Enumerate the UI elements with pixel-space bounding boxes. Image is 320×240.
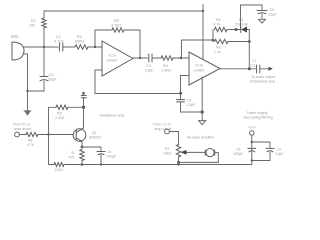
svg-text:1N4148: 1N4148 — [235, 23, 248, 27]
op-amp U2 IC1b — [189, 52, 220, 85]
resistor R3 — [112, 28, 124, 32]
svg-text:LM387: LM387 — [194, 69, 205, 73]
wire rail to R1 — [43, 11, 45, 18]
svg-text:+9 V: +9 V — [248, 126, 256, 130]
svg-text:Q1: Q1 — [92, 131, 97, 135]
wire C2 to bottom junction — [28, 81, 45, 91]
wire bottom rail — [64, 164, 252, 166]
wire R2 to IC1a input — [88, 46, 102, 48]
output arrow terminal — [269, 67, 273, 71]
svg-text:10µF: 10µF — [276, 152, 284, 156]
resistor R8 — [26, 132, 38, 136]
capacitor C8 — [248, 148, 256, 151]
wire noninverting input down — [95, 70, 102, 93]
microphone MIC — [11, 34, 24, 60]
svg-text:22µF: 22µF — [268, 13, 277, 17]
wire C4 to ground node — [181, 102, 203, 112]
svg-text:of feedback amp: of feedback amp — [250, 80, 276, 84]
svg-text:R7: R7 — [165, 147, 170, 151]
wire C7 to output arrow — [260, 68, 269, 70]
wire earphone return — [179, 153, 219, 163]
terminal +9V — [250, 131, 254, 135]
resistor RC — [56, 105, 68, 109]
earphone — [205, 149, 214, 157]
resistor R6 — [215, 39, 229, 43]
node base junction — [47, 133, 49, 135]
wire mic return down — [23, 54, 28, 91]
ground arrow left — [24, 91, 31, 116]
node pot/rail — [177, 163, 179, 165]
svg-text:1.4k: 1.4k — [214, 50, 221, 54]
wire C5 to ground — [261, 14, 263, 19]
svg-text:2.2kΩ: 2.2kΩ — [55, 116, 65, 120]
node bias line / C4 — [179, 92, 182, 95]
svg-text:Re-enter amplifier: Re-enter amplifier — [187, 135, 215, 139]
svg-text:To audio output: To audio output — [251, 75, 275, 79]
wire D1 to output vertical — [247, 29, 249, 31]
terminal from C2 of amp — [165, 129, 170, 134]
capacitor C6 — [97, 152, 105, 155]
node return/pot bottom — [177, 161, 180, 164]
wire bias line — [95, 93, 181, 95]
node emitter junction — [81, 146, 84, 149]
svg-text:R1: R1 — [31, 19, 36, 23]
svg-text:IC1b: IC1b — [196, 64, 204, 68]
terminal input from amp — [15, 132, 20, 137]
wire bottom rail left — [49, 164, 55, 166]
node R6/output vertical — [248, 40, 251, 43]
wire IC1b noninverting input — [181, 76, 190, 94]
svg-text:4.7k: 4.7k — [27, 143, 34, 147]
svg-text:C5: C5 — [270, 8, 275, 12]
svg-text:1.5µF: 1.5µF — [186, 103, 196, 107]
wire collector up — [82, 107, 84, 128]
wire diode node to C5 — [241, 5, 263, 29]
wire node A down to C2 — [43, 47, 45, 77]
capacitor C3 — [149, 54, 152, 62]
wire branch to C9 — [252, 142, 270, 148]
svg-text:1.4kΩ: 1.4kΩ — [161, 69, 171, 73]
capacitor collector coupling — [81, 96, 86, 98]
wire RC row — [49, 106, 57, 108]
transistor Q1 — [73, 128, 86, 142]
svg-text:From C2 of: From C2 of — [153, 123, 171, 127]
wire terminal to R8 — [19, 134, 26, 136]
svg-text:10kΩ: 10kΩ — [163, 152, 172, 156]
node A mic/R1 junction — [43, 46, 45, 48]
wire R6 to output vertical — [228, 41, 249, 43]
wire IC1b ground pin — [201, 77, 203, 121]
svg-text:10k: 10k — [29, 24, 35, 28]
svg-text:100µF: 100µF — [106, 155, 116, 159]
resistor R11 rail — [54, 163, 64, 167]
wire RC to collector node — [68, 106, 84, 108]
node R10/rail — [81, 163, 84, 166]
svg-text:C4: C4 — [187, 99, 192, 103]
svg-text:R4: R4 — [163, 64, 168, 68]
wire R5 to D1 — [227, 29, 241, 31]
svg-text:100Ω: 100Ω — [55, 168, 64, 172]
wire output vertical — [248, 30, 250, 69]
node C6/rail — [100, 163, 102, 165]
wire C6 to rail — [100, 155, 102, 165]
svg-text:amp circuit: amp circuit — [155, 127, 172, 131]
svg-text:R5: R5 — [216, 18, 221, 22]
diode D1 — [241, 26, 247, 32]
capacitor C1 — [60, 43, 63, 51]
capacitor C9 — [266, 148, 274, 151]
svg-text:470: 470 — [69, 156, 75, 160]
node C8 top — [251, 141, 253, 143]
svg-text:R2: R2 — [77, 35, 82, 39]
svg-text:2N2222: 2N2222 — [89, 136, 101, 140]
node V+ at IC power branch — [202, 10, 204, 12]
wire cap to collector node — [83, 98, 85, 108]
capacitor C5 — [257, 11, 267, 14]
wiper arrow — [181, 150, 187, 155]
svg-text:R8: R8 — [28, 139, 33, 143]
capacitor C4 — [177, 100, 185, 102]
node C8 bottom — [251, 159, 253, 161]
svg-text:C8: C8 — [236, 148, 241, 152]
svg-text:decoupling filtering: decoupling filtering — [244, 115, 273, 119]
node feedback branch — [212, 39, 215, 42]
wire stub above node — [202, 5, 204, 12]
node inverting input IC1b — [180, 57, 182, 59]
svg-text:From P1 of: From P1 of — [13, 123, 30, 127]
svg-text:D1: D1 — [239, 18, 244, 22]
ground below IC1b — [199, 121, 206, 125]
svg-text:C2: C2 — [49, 73, 54, 77]
wire terminal to pot — [169, 132, 178, 145]
wire feedback up from IC1b input — [182, 40, 214, 58]
svg-text:4.7kΩ: 4.7kΩ — [111, 24, 121, 28]
resistor R4 — [161, 56, 173, 60]
svg-text:LM387: LM387 — [107, 59, 118, 63]
svg-text:RC: RC — [57, 112, 63, 116]
wire IC1b output — [220, 68, 256, 70]
wire C9 to bottom branch — [252, 152, 270, 161]
wire emitter to C6 — [82, 147, 101, 151]
svg-text:4.7µF: 4.7µF — [54, 40, 64, 44]
wire cap to bias line — [83, 93, 85, 95]
svg-text:100µF: 100µF — [233, 152, 243, 156]
node inverting input IC1a — [94, 46, 96, 48]
wire R8 to base — [38, 134, 73, 136]
node output junction — [248, 67, 251, 70]
svg-text:680Ω: 680Ω — [75, 40, 84, 44]
svg-text:C3: C3 — [146, 64, 151, 68]
wire wiper to earphone — [187, 151, 206, 153]
node collector junction — [82, 106, 85, 109]
wire R3 to output node — [124, 30, 140, 58]
node R5/D1/C5 junction — [235, 28, 238, 31]
svg-text:10µF: 10µF — [48, 78, 57, 82]
wire R4 to IC1b input — [173, 57, 189, 59]
svg-text:4.7k: 4.7k — [214, 23, 221, 27]
svg-text:MIC: MIC — [11, 34, 19, 39]
svg-text:0.1: 0.1 — [251, 63, 256, 67]
wire node A to C1 — [44, 46, 58, 48]
svg-text:C6: C6 — [107, 150, 112, 154]
svg-text:10µF: 10µF — [145, 69, 154, 73]
node IC1a output — [139, 57, 141, 59]
ground top right — [258, 19, 265, 23]
capacitor C7 — [257, 65, 260, 73]
wire IC1a output — [133, 57, 148, 59]
wire feedback bracket — [212, 30, 214, 42]
resistor R2 — [75, 45, 88, 49]
svg-text:C1: C1 — [56, 35, 61, 39]
op-amp U1 IC1a — [102, 41, 133, 76]
capacitor C2 — [40, 77, 48, 81]
wire mic output to node A — [24, 46, 45, 48]
wire left vertical bias chain — [48, 107, 50, 164]
wire C4 top stub — [180, 93, 182, 99]
svg-text:R6: R6 — [216, 46, 221, 50]
node ground pin junction — [201, 110, 204, 113]
wire R10 to rail — [81, 161, 83, 165]
resistor R5 — [215, 27, 228, 31]
wire IC1b V+ pin from rail — [202, 11, 204, 60]
wire feedback up from input node — [95, 30, 112, 47]
node mic-return/C2 junction — [26, 90, 28, 92]
wire C3 to R4 — [152, 57, 161, 59]
wire V+ top rail — [44, 10, 203, 12]
svg-text:IC1a: IC1a — [109, 54, 117, 58]
node bias/cap junction — [82, 92, 85, 95]
wire pot bottom to rail — [178, 157, 180, 165]
resistor R10 emitter — [80, 150, 84, 161]
wire +9V down to rail — [251, 135, 253, 164]
potentiometer R7 — [176, 145, 180, 158]
svg-text:C9: C9 — [277, 148, 282, 152]
svg-text:Headphone amp: Headphone amp — [100, 113, 125, 117]
wire R1 to node A — [43, 28, 45, 47]
wire C1 to R2 — [63, 46, 75, 48]
resistor R1 — [42, 18, 46, 28]
svg-text:R3: R3 — [114, 19, 119, 23]
wire emitter down — [81, 142, 83, 147]
svg-text:amp circuit: amp circuit — [14, 127, 31, 131]
